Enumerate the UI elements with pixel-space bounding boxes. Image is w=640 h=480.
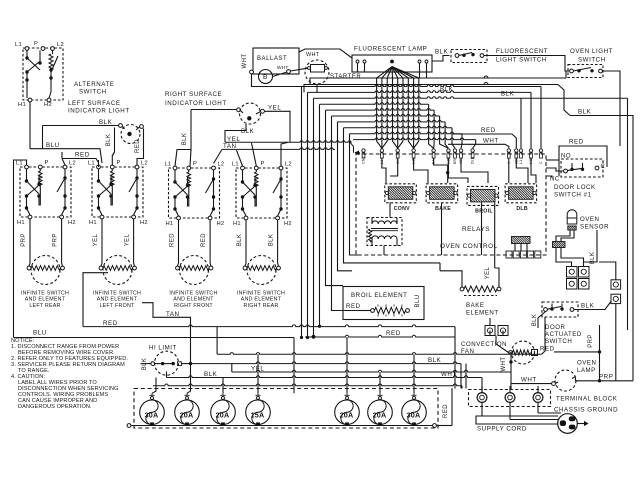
wire fan plug to bus xyxy=(489,331,491,336)
lamp left pins xyxy=(357,63,359,72)
fluorescent lamp box xyxy=(352,55,432,72)
svg-text:CONV: CONV xyxy=(394,206,410,212)
svg-text:FLUORESCENT: FLUORESCENT xyxy=(496,48,548,55)
svg-text:BLK: BLK xyxy=(106,134,112,147)
oven sensor bulb xyxy=(567,210,577,218)
svg-text:OVEN: OVEN xyxy=(577,360,596,367)
wire cascade vertical 6 xyxy=(332,116,361,311)
svg-text:L1: L1 xyxy=(165,162,172,168)
wire oven light switch right down xyxy=(603,71,621,146)
fuse bottom contact xyxy=(185,422,189,425)
wire braid row 7 xyxy=(338,120,446,122)
fuse top pin xyxy=(413,397,416,400)
fuse top pin xyxy=(346,397,349,400)
oven control pin 7 xyxy=(453,149,456,152)
terminal L2 xyxy=(212,166,216,170)
wire PRP H2 down xyxy=(61,219,63,263)
wire braid row 3 drop xyxy=(627,98,629,330)
wire braid row 10 xyxy=(353,138,476,140)
wire braid row 1 xyxy=(302,85,542,87)
svg-text:BLU: BLU xyxy=(415,295,421,308)
svg-text:RED: RED xyxy=(135,139,141,153)
svg-text:RED: RED xyxy=(481,127,496,134)
wire cascade vertical 3 xyxy=(313,98,315,337)
alternate switch contacts xyxy=(26,50,28,57)
svg-text:YEL: YEL xyxy=(485,266,491,279)
svg-text:TAN: TAN xyxy=(223,143,237,150)
svg-text:BR: BR xyxy=(453,159,457,164)
svg-text:DLB: DLB xyxy=(471,156,475,164)
pilot heater coil xyxy=(188,170,190,172)
wire ballast to starter xyxy=(290,68,307,71)
wire hi limit row r2 xyxy=(141,363,151,365)
fuse block bottom bus xyxy=(130,425,433,427)
wire braid row 9 xyxy=(350,132,463,134)
alternate switch bimetal xyxy=(51,56,58,72)
svg-text:L1: L1 xyxy=(232,162,239,168)
svg-text:RELAYS: RELAYS xyxy=(462,226,490,233)
wire PRP H1 down xyxy=(29,219,31,263)
fuse 20A xyxy=(211,400,236,425)
wire braid row 9 drop xyxy=(461,134,462,149)
svg-text:BLK: BLK xyxy=(435,49,449,56)
svg-text:RED: RED xyxy=(201,233,207,247)
terminal H1 xyxy=(177,216,181,220)
svg-text:SWITCH: SWITCH xyxy=(545,338,572,345)
svg-text:RED: RED xyxy=(540,346,555,353)
svg-text:RED: RED xyxy=(75,152,90,159)
terminal block terminal xyxy=(505,393,515,403)
wire r3 YEL y372 xyxy=(231,364,233,372)
wire cascade vertical 9 xyxy=(350,134,361,255)
oven control pin 8 xyxy=(459,149,462,152)
svg-text:RIGHT SURFACE: RIGHT SURFACE xyxy=(165,91,222,98)
wire braid row 10 drop xyxy=(473,140,476,149)
oven control pin 1 xyxy=(362,149,365,152)
svg-text:FLUORESCENT LAMP: FLUORESCENT LAMP xyxy=(354,46,427,53)
svg-text:B: B xyxy=(263,74,268,81)
wire cascade vertical 5 xyxy=(326,110,344,286)
broil element box xyxy=(343,287,424,320)
wire fan leads xyxy=(496,336,509,353)
svg-text:BLK: BLK xyxy=(237,234,243,247)
svg-text:BLK: BLK xyxy=(182,133,188,146)
wire BLU horizontal xyxy=(30,148,96,150)
wire RED bus y326.6 xyxy=(83,273,108,327)
svg-text:L2: L2 xyxy=(141,161,148,167)
pilot heater coil xyxy=(255,170,257,172)
svg-text:H2: H2 xyxy=(284,221,292,227)
wire braid row 2 drop xyxy=(530,92,532,148)
wire fuse feeds xyxy=(187,364,191,394)
svg-text:20A: 20A xyxy=(180,410,194,419)
svg-text:PRP: PRP xyxy=(588,334,594,348)
wire bake feed from cascade xyxy=(439,263,441,271)
wire bus y78 xyxy=(310,71,566,84)
fuse 20A xyxy=(175,400,200,425)
fuse 15A xyxy=(246,400,271,425)
wire YEL H2 down xyxy=(133,219,135,263)
svg-text:L2: L2 xyxy=(57,42,64,48)
oven control pin 9 xyxy=(471,149,474,152)
svg-text:P: P xyxy=(45,160,49,166)
infinite switch box LEFT FRONT xyxy=(92,167,143,217)
svg-text:P: P xyxy=(34,41,38,47)
wire fluor switch to oven light switch xyxy=(484,56,570,72)
terminal P xyxy=(187,166,191,170)
wire YEL into oven control xyxy=(225,141,354,153)
left surface indicator light lamp xyxy=(119,124,123,128)
svg-text:BLK: BLK xyxy=(99,119,113,126)
svg-text:30A: 30A xyxy=(145,410,159,419)
wire r2 right of junction xyxy=(191,362,462,364)
infinite switch box RIGHT REAR xyxy=(236,168,287,218)
svg-text:WHT: WHT xyxy=(501,357,507,372)
pilot heater coil xyxy=(39,169,41,171)
wire WHT to lamp xyxy=(299,49,352,58)
relay DLB xyxy=(505,184,536,203)
terminal H2 xyxy=(47,98,51,102)
terminal H1 xyxy=(100,215,104,219)
svg-text:BROIL: BROIL xyxy=(475,209,493,215)
svg-text:WHT: WHT xyxy=(483,138,499,145)
fuse 20A xyxy=(368,400,393,425)
terminal H1 xyxy=(28,215,32,219)
wire r5 y385.7 xyxy=(155,378,157,386)
wire braid row 8 drop xyxy=(452,128,455,149)
svg-text:WHT: WHT xyxy=(521,377,537,384)
wire braid row 7 drop xyxy=(445,122,448,148)
svg-text:BLU: BLU xyxy=(33,330,47,337)
label OVEN LAMP xyxy=(575,357,598,374)
convection fan plugs xyxy=(485,326,495,336)
wire terminals up xyxy=(481,386,483,393)
switch contacts xyxy=(98,169,100,180)
wire RED H1 down xyxy=(178,220,180,263)
terminal block terminal xyxy=(477,393,487,403)
plug connector grid xyxy=(567,267,578,278)
svg-text:P: P xyxy=(261,161,265,167)
fuse bottom contact xyxy=(256,422,260,425)
svg-text:BLK: BLK xyxy=(581,303,595,310)
fuse bottom contact xyxy=(221,422,225,425)
fuse bottom contact xyxy=(378,422,382,425)
oven control output connector xyxy=(512,237,531,244)
svg-text:BROIL ELEMENT: BROIL ELEMENT xyxy=(351,292,407,299)
hi limit thermostat xyxy=(155,351,179,375)
wire cascade vertical 7 xyxy=(338,122,353,271)
oven control pin 3 xyxy=(396,149,399,152)
wire RED bus center y337 xyxy=(305,335,455,337)
terminal P xyxy=(254,166,258,170)
svg-text:LEFT FRONT: LEFT FRONT xyxy=(99,303,135,309)
svg-text:30A: 30A xyxy=(407,410,421,419)
terminal L1 xyxy=(173,166,177,170)
wire braid row 6 xyxy=(332,114,440,116)
svg-text:INFINITE SWITCH: INFINITE SWITCH xyxy=(93,291,141,297)
svg-text:H2: H2 xyxy=(68,220,76,226)
wire BLU to sw2 xyxy=(96,149,102,163)
fuse 30A xyxy=(402,400,427,425)
wire cascade vertical 8 xyxy=(344,128,441,263)
wire transformer leads xyxy=(371,218,373,224)
svg-text:AND ELEMENT: AND ELEMENT xyxy=(25,297,66,303)
oven lamp xyxy=(555,370,576,391)
broil element resistor xyxy=(371,309,375,313)
terminal H2 xyxy=(208,216,212,220)
svg-text:20A: 20A xyxy=(373,410,387,419)
svg-text:SWITCH: SWITCH xyxy=(79,89,107,96)
wire BLK below indicator xyxy=(225,124,246,142)
svg-text:H2: H2 xyxy=(217,221,225,227)
svg-text:L1: L1 xyxy=(519,160,523,164)
svg-text:SENSOR: SENSOR xyxy=(580,224,609,231)
wire braid row 8 xyxy=(344,126,453,128)
svg-text:INFINITE SWITCH: INFINITE SWITCH xyxy=(169,291,217,297)
svg-text:AND ELEMENT: AND ELEMENT xyxy=(97,297,138,303)
svg-text:RED: RED xyxy=(170,233,176,247)
wire braid row 1 drop xyxy=(540,87,542,149)
svg-text:BLU: BLU xyxy=(46,142,60,149)
terminal L2 xyxy=(135,165,139,169)
wire YEL H1 down xyxy=(101,219,103,263)
alternate switch box xyxy=(23,48,63,100)
fuse top pin xyxy=(222,397,225,400)
svg-text:RIGHT FRONT: RIGHT FRONT xyxy=(174,303,213,309)
svg-text:YEL: YEL xyxy=(93,233,99,246)
svg-text:SWITCH: SWITCH xyxy=(578,57,606,64)
terminal L2 xyxy=(51,47,55,51)
bake element resistor xyxy=(460,287,464,291)
wire feeds to sw terminals xyxy=(14,160,27,338)
svg-text:RED: RED xyxy=(346,303,361,310)
svg-text:LEFT REAR: LEFT REAR xyxy=(29,303,60,309)
svg-text:DLB: DLB xyxy=(516,206,528,212)
wire terminal pins to relays xyxy=(382,158,386,183)
terminal L1 xyxy=(97,165,101,169)
fuse 20A xyxy=(335,400,360,425)
svg-text:P: P xyxy=(117,160,121,166)
wire bus BLK y115 xyxy=(570,116,633,381)
ballast B lamp xyxy=(259,70,273,84)
svg-text:20A: 20A xyxy=(216,410,230,419)
svg-text:INDICATOR LIGHT: INDICATOR LIGHT xyxy=(68,108,130,115)
svg-text:BALLAST: BALLAST xyxy=(257,56,287,62)
oven control pin 13 xyxy=(529,149,532,152)
wire BLK H1 down xyxy=(245,220,247,263)
relay BROIL xyxy=(467,186,499,205)
svg-text:L1: L1 xyxy=(16,161,23,167)
svg-text:CHASSIS GROUND: CHASSIS GROUND xyxy=(554,407,618,414)
svg-text:H1: H1 xyxy=(18,102,26,108)
infinite switch box LEFT REAR xyxy=(20,167,71,217)
wire RED from indicator right xyxy=(137,129,144,166)
oven control connector squares xyxy=(506,251,512,258)
fuse bottom contact xyxy=(345,422,349,425)
wire braid row 3 xyxy=(314,97,628,99)
terminal H2 xyxy=(276,216,280,220)
terminal L2 xyxy=(279,166,283,170)
oven control transformer xyxy=(367,218,402,246)
starter xyxy=(305,60,329,84)
svg-text:PRP: PRP xyxy=(53,233,59,247)
svg-text:OVEN CONTROL: OVEN CONTROL xyxy=(440,243,498,250)
fuse block dashed box xyxy=(134,389,438,429)
switch contacts xyxy=(174,170,176,181)
oven control pin 12 xyxy=(519,149,522,152)
wire H1 down to BLU node xyxy=(29,102,31,149)
supply cord wires xyxy=(481,403,483,417)
svg-text:H1: H1 xyxy=(89,220,97,226)
svg-text:H2: H2 xyxy=(44,102,52,108)
wire braid row 5 xyxy=(326,108,435,110)
svg-text:AND ELEMENT: AND ELEMENT xyxy=(241,297,282,303)
terminal P xyxy=(41,47,45,51)
svg-text:L2: L2 xyxy=(218,162,225,168)
wire r1 y354.3 xyxy=(216,327,218,355)
wire YEL from right indicator xyxy=(265,111,291,142)
terminal L1 xyxy=(25,165,29,169)
oven control left arrow pin xyxy=(355,152,360,154)
svg-text:BLK: BLK xyxy=(241,128,255,135)
wire BLK H2 down xyxy=(277,220,279,263)
svg-text:OVEN: OVEN xyxy=(580,216,599,223)
oven sensor connector xyxy=(553,242,566,248)
wire to right indicator xyxy=(191,109,237,111)
bimetal contact xyxy=(213,170,215,179)
infinite switch box RIGHT FRONT xyxy=(169,168,220,218)
wire connector leads xyxy=(514,244,516,252)
svg-text:LIGHT SWITCH: LIGHT SWITCH xyxy=(496,57,547,64)
wire bus BLK y84 xyxy=(304,85,570,116)
oven control dashed box xyxy=(356,154,546,255)
door lock switch #1 enclosure xyxy=(559,146,607,176)
terminal P xyxy=(38,165,42,169)
svg-text:BLK: BLK xyxy=(142,358,148,371)
fuse bottom contact xyxy=(412,422,416,425)
svg-text:TAN: TAN xyxy=(166,311,180,318)
wire RED door switch xyxy=(554,351,600,353)
wire r4 BLK y377.5 xyxy=(166,372,168,378)
wire lower square down to PRP xyxy=(615,304,617,381)
chassis ground plug xyxy=(558,414,578,434)
svg-text:RIGHT REAR: RIGHT REAR xyxy=(243,303,278,309)
wire cascade vertical 4 xyxy=(319,104,321,326)
wire braid row 4 drop xyxy=(429,104,434,148)
svg-text:BLK: BLK xyxy=(204,371,218,378)
oven control pin 6 xyxy=(447,149,450,152)
wire braid row 4 xyxy=(320,103,429,105)
alternate switch coil xyxy=(52,50,54,54)
door lock switch #1 dashed box xyxy=(561,159,603,177)
svg-text:YEL: YEL xyxy=(125,233,131,246)
svg-text:BAKE: BAKE xyxy=(466,302,484,309)
wire upper square to sensor BLK xyxy=(599,262,616,280)
svg-text:P: P xyxy=(193,161,197,167)
svg-text:WHT: WHT xyxy=(441,371,457,378)
right surface indicator light lamp xyxy=(237,108,241,112)
wire RED row to pin xyxy=(452,134,516,148)
svg-text:TERMINAL BLOCK: TERMINAL BLOCK xyxy=(556,396,618,403)
wire BLK vertical under indicator xyxy=(114,128,116,153)
element LEFT REAR xyxy=(31,256,60,285)
relay BAKE xyxy=(426,184,458,203)
wire BLK fork to sw3 xyxy=(175,150,191,167)
svg-text:AND ELEMENT: AND ELEMENT xyxy=(173,297,214,303)
svg-text:SWITCH #1: SWITCH #1 xyxy=(554,192,592,199)
wire PRP from oven lamp xyxy=(576,378,634,381)
wire RED H2 down xyxy=(209,220,211,263)
ballast box xyxy=(253,48,299,74)
svg-text:L2: L2 xyxy=(69,161,76,167)
wire WHT to oven lamp xyxy=(511,383,552,385)
svg-text:BLK: BLK xyxy=(532,314,538,327)
svg-text:STARTER: STARTER xyxy=(330,74,361,80)
wire lamp right pins down xyxy=(419,72,421,78)
svg-text:LAMP: LAMP xyxy=(577,367,596,374)
wire braid column fans to terminals xyxy=(377,141,382,148)
wire sensor leads xyxy=(556,230,570,242)
svg-text:RED: RED xyxy=(386,330,401,337)
door lock contacts xyxy=(564,169,568,173)
svg-text:INFINITE SWITCH: INFINITE SWITCH xyxy=(237,291,285,297)
bimetal contact xyxy=(280,170,282,179)
svg-text:RED: RED xyxy=(103,320,118,327)
fuse top pin xyxy=(257,397,260,400)
svg-text:PRP: PRP xyxy=(21,233,27,247)
oven control pin 2 xyxy=(380,149,383,152)
chassis ground arrow xyxy=(577,423,585,425)
svg-text:ACTUATED: ACTUATED xyxy=(545,331,582,338)
svg-text:C: C xyxy=(601,164,606,170)
wire braid row 2 xyxy=(308,91,532,93)
terminal block dashed box xyxy=(469,390,551,407)
wire WHT row to pin xyxy=(448,144,509,148)
wire cascade vertical 1 xyxy=(301,87,303,338)
fluorescent light switch xyxy=(451,50,487,63)
door actuated switch dashed box xyxy=(542,302,578,317)
oven light switch xyxy=(568,65,603,78)
right side plug squares xyxy=(611,280,621,289)
wire YEL bake xyxy=(494,203,496,269)
switch contacts xyxy=(242,170,244,181)
svg-text:H2: H2 xyxy=(140,220,148,226)
wire cascade vertical 2 xyxy=(307,92,309,337)
wire WHT to terminal 1 xyxy=(510,384,512,390)
svg-text:BAKE: BAKE xyxy=(435,206,451,212)
svg-text:BLK: BLK xyxy=(578,109,592,116)
oven control pin 10 xyxy=(507,149,510,152)
wire RED horizontal xyxy=(62,159,98,163)
svg-text:DOOR: DOOR xyxy=(545,324,566,331)
fuse top pin xyxy=(379,397,382,400)
svg-text:20A: 20A xyxy=(340,410,354,419)
element LEFT FRONT xyxy=(103,256,132,285)
svg-text:BLK: BLK xyxy=(428,357,442,364)
oven control pin 5 xyxy=(432,149,435,152)
oven control pin 4 xyxy=(412,149,415,152)
wire PRP vertical xyxy=(599,325,601,381)
wire TAN bus xyxy=(222,148,335,150)
terminal H2 xyxy=(132,215,136,219)
svg-text:RED: RED xyxy=(569,139,584,146)
svg-text:H1: H1 xyxy=(166,221,174,227)
svg-text:BLK: BLK xyxy=(269,234,275,247)
wire braid row 5 drop xyxy=(433,110,436,148)
svg-text:15A: 15A xyxy=(251,410,265,419)
terminal H1 xyxy=(244,216,248,220)
wire RED fuse block right xyxy=(437,425,453,427)
